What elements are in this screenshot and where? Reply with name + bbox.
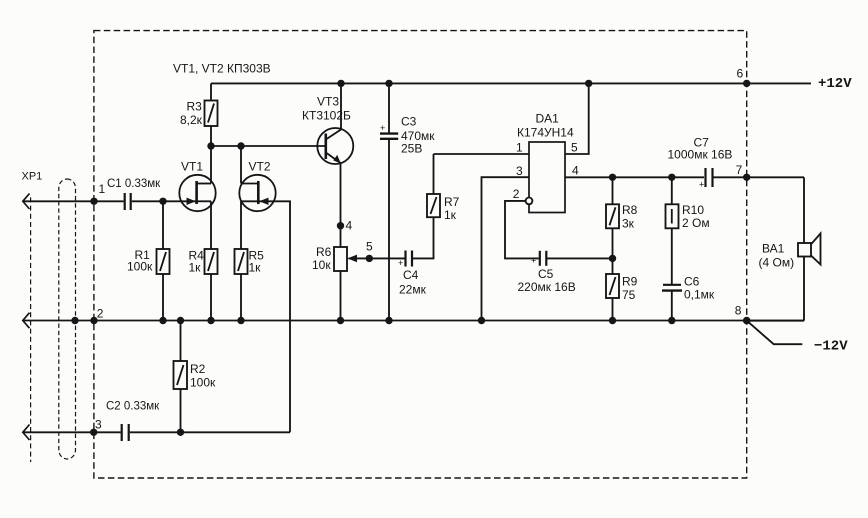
wire: pin 3 to ground: [482, 177, 530, 320]
svg-text:+12V: +12V: [818, 76, 852, 92]
svg-text:3к: 3к: [622, 217, 635, 231]
svg-text:1: 1: [99, 182, 106, 196]
resistor R4: [189, 201, 218, 320]
capacitor C2: [121, 424, 123, 441]
svg-text:7: 7: [736, 163, 743, 177]
svg-text:+: +: [531, 256, 536, 266]
wire: VT1 drain up to R3: [210, 146, 212, 184]
svg-text:8,2к: 8,2к: [180, 113, 203, 127]
transistor VT1 (КП303В JFET): [179, 160, 215, 212]
wire: input line 1 (to C1): [23, 200, 123, 202]
node: R4 ground: [207, 317, 214, 324]
capacitor C5: [518, 251, 576, 294]
resistor R2: [174, 321, 217, 433]
svg-text:220мк 16В: 220мк 16В: [518, 280, 576, 294]
svg-text:75: 75: [622, 288, 636, 302]
wire: output line pin 4: [565, 176, 704, 178]
svg-text:6: 6: [737, 67, 744, 81]
capacitor C4: [398, 251, 427, 297]
wire: pin 2 to C5: [505, 201, 539, 259]
node: line1 at border: [90, 198, 97, 205]
svg-text:3: 3: [95, 418, 102, 432]
node: R5 ground: [237, 317, 244, 324]
wire: input line 3: [23, 431, 120, 433]
svg-text:5: 5: [571, 141, 578, 155]
wire: VT3 emitter down: [340, 163, 342, 247]
wire: pin 5 to +12 rail: [565, 83, 589, 154]
svg-text:R6: R6: [316, 245, 332, 259]
svg-text:1к: 1к: [249, 261, 262, 275]
wire: speaker loop: [803, 177, 805, 243]
node: R2 top: [177, 317, 184, 324]
capacitor C7: [668, 136, 733, 190]
svg-text:DA1: DA1: [536, 112, 560, 126]
svg-text:100к: 100к: [190, 376, 216, 390]
svg-text:4: 4: [346, 219, 353, 233]
node: shield to ground: [71, 317, 78, 324]
wire: C7 to speaker branch: [714, 176, 805, 178]
connector XP1 dashed housing line: [30, 197, 32, 462]
node: R6 ground: [337, 317, 344, 324]
svg-text:VT2: VT2: [249, 160, 271, 174]
node: R1 ground: [159, 317, 166, 324]
svg-text:22мк: 22мк: [399, 283, 427, 297]
svg-text:5: 5: [366, 240, 373, 254]
pin 2 inversion bubble: [526, 198, 533, 205]
wire: VT2 drain up: [240, 146, 242, 184]
wire: VT2 gate to line 3: [258, 201, 290, 432]
wire: C5 to R8/R9 node: [547, 257, 612, 259]
loudspeaker BA1: [759, 234, 821, 270]
capacitor C1: [124, 193, 126, 210]
resistor R10: [666, 177, 710, 284]
resistor R7: [427, 154, 460, 222]
svg-text:C3: C3: [401, 114, 417, 128]
svg-text:−12V: −12V: [814, 339, 848, 355]
svg-text:К174УН14: К174УН14: [517, 126, 574, 140]
wire: VT3 collector to +12 rail: [340, 83, 342, 129]
svg-text:R9: R9: [622, 275, 638, 289]
node: pin5 on rail: [585, 80, 592, 87]
node 7 contact: [743, 174, 750, 181]
svg-text:3: 3: [516, 164, 523, 178]
wire: -12V tap: [747, 321, 803, 345]
wire: C1 to VT1 gate: [132, 200, 197, 202]
svg-text:2 Ом: 2 Ом: [682, 216, 710, 230]
svg-text:R2: R2: [190, 362, 206, 376]
svg-text:VT1: VT1: [181, 160, 203, 174]
node: R3/VT1 drain junction: [207, 142, 214, 149]
svg-text:VT1, VT2 КП303В: VT1, VT2 КП303В: [173, 62, 271, 76]
node 8 contact: [743, 317, 751, 325]
wire: C2 to R2/VT2 gate: [130, 431, 290, 433]
transistor VT3 (КТ3102Б NPN): [302, 95, 353, 165]
node: R8/R9/C5 junction: [609, 255, 616, 262]
svg-text:0,1мк: 0,1мк: [684, 288, 715, 302]
svg-text:2: 2: [97, 307, 104, 321]
node: R9 ground: [609, 317, 616, 324]
potentiometer R6: [312, 245, 347, 321]
wire: pin 1 lead: [434, 153, 530, 155]
svg-text:1: 1: [516, 141, 523, 155]
svg-text:R8: R8: [622, 203, 638, 217]
capacitor C6: [662, 275, 715, 321]
svg-text:+: +: [699, 180, 704, 190]
node: C1/R1 junction: [159, 198, 166, 205]
capacitor C3: [380, 83, 435, 320]
resistor R8: [606, 177, 638, 274]
svg-text:C6: C6: [684, 275, 700, 289]
connector pin arrow 2: [23, 313, 30, 329]
ground rail line 2: [23, 320, 804, 322]
svg-text:8: 8: [735, 304, 742, 318]
svg-text:2: 2: [513, 187, 520, 201]
svg-text:R10: R10: [682, 203, 704, 217]
connector pin arrow 1: [23, 194, 30, 210]
svg-text:R3: R3: [187, 100, 203, 114]
node: VT3 collector on rail: [337, 80, 344, 87]
node: R10 top: [668, 174, 675, 181]
svg-text:25В: 25В: [401, 142, 422, 156]
svg-text:1000мк 16В: 1000мк 16В: [668, 148, 733, 162]
svg-text:C1 0.33мк: C1 0.33мк: [107, 178, 161, 190]
svg-text:+: +: [380, 123, 385, 133]
resistor R9: [606, 274, 638, 321]
wire: C4 to R7: [413, 217, 434, 258]
svg-text:VT3: VT3: [317, 95, 339, 109]
resistor R5: [235, 201, 265, 320]
resistor R1: [127, 201, 170, 320]
svg-text:1к: 1к: [189, 261, 202, 275]
svg-text:10к: 10к: [312, 258, 331, 272]
svg-text:100к: 100к: [127, 260, 153, 274]
svg-text:4: 4: [572, 164, 579, 178]
svg-text:(4 Ом): (4 Ом): [759, 256, 795, 270]
svg-text:C4: C4: [403, 268, 419, 282]
shielded cable oval: [59, 179, 76, 459]
svg-text:КТ3102Б: КТ3102Б: [302, 109, 351, 123]
svg-text:ВА1: ВА1: [762, 242, 785, 256]
node: C3 on rail: [385, 80, 392, 87]
+12V power rail: [211, 82, 811, 84]
op-amp IC DA1 К174УН14: [513, 112, 579, 213]
transistor VT2 (КП303В JFET): [239, 160, 275, 212]
node: R2 bottom: [177, 429, 184, 436]
svg-text:C2 0.33мк: C2 0.33мк: [106, 401, 160, 413]
svg-text:+: +: [398, 258, 403, 268]
svg-text:C5: C5: [538, 267, 554, 281]
node: line3 at border: [90, 429, 97, 436]
wire: R6 wiper: [349, 257, 405, 259]
node: C6 ground: [668, 317, 675, 324]
wire: base line R3 node to VT3: [211, 145, 326, 147]
node: VT2 drain junction: [237, 142, 244, 149]
dashed enclosure border: [94, 31, 747, 478]
node 6 contact: [743, 80, 750, 87]
node: C3 ground: [385, 317, 392, 324]
svg-text:R7: R7: [444, 195, 460, 209]
connector pin arrow 3: [23, 425, 30, 441]
node: pin3 ground: [478, 317, 485, 324]
node 2 contact: [90, 317, 97, 324]
svg-text:1к: 1к: [444, 208, 457, 222]
node: R8 top: [609, 174, 616, 181]
resistor R3: [180, 83, 218, 146]
node 4 contact: [337, 222, 344, 229]
svg-text:ХР1: ХР1: [22, 171, 43, 183]
node 5 contact: [366, 255, 373, 262]
